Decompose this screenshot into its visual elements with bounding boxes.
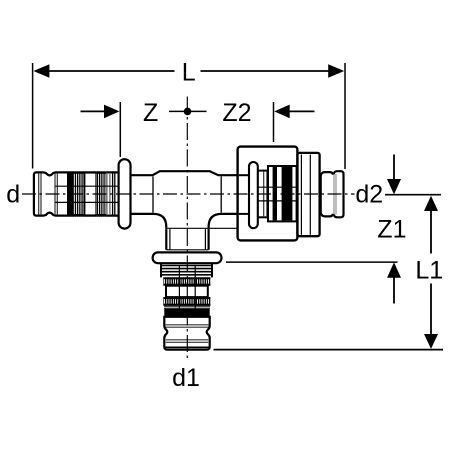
main tube bottom outline with fillets into branch [131, 214, 167, 250]
svg-text:d: d [6, 181, 20, 209]
left port: outer sleeve outline [34, 172, 119, 215]
L extension line left [32, 63, 34, 169]
left port ring lines [107, 173, 115, 215]
svg-text:L1: L1 [415, 257, 443, 285]
left port serration band B [96, 172, 106, 217]
bottom port bore lines [178, 265, 180, 309]
stepped section inside box [268, 166, 297, 221]
L dimension line [48, 70, 175, 72]
left port flange [119, 159, 131, 228]
flange extension line [226, 261, 398, 263]
main tube top outline with hump [131, 171, 238, 175]
horizontal centerline [22, 193, 355, 195]
center dot [184, 108, 192, 116]
pipe end [321, 171, 344, 217]
bottom port neck sides [160, 263, 162, 277]
left port white band [84, 173, 96, 216]
branch inner wall lines [169, 229, 171, 249]
svg-text:Z1: Z1 [377, 215, 406, 243]
svg-text:Z2: Z2 [222, 99, 251, 127]
center mark line [169, 110, 207, 112]
bottom port ring lines [161, 266, 212, 275]
L arrow left [33, 64, 49, 78]
bottom port white band [166, 286, 208, 297]
branch end line above flange [166, 249, 208, 251]
bottom port end sleeve [164, 317, 209, 350]
Z dimension tail [81, 110, 106, 112]
tube lines into box [239, 174, 249, 176]
svg-text:d2: d2 [355, 181, 383, 209]
Z1 down arrow [387, 179, 401, 194]
capsule collar inside box [249, 162, 258, 228]
bottom sleeve detail lines [165, 325, 208, 348]
svg-text:Z: Z [143, 99, 158, 127]
Z2 arrow [274, 105, 289, 119]
L arrow right [328, 64, 344, 78]
bottom extension line [214, 349, 444, 351]
left port serration band A [74, 172, 85, 217]
Z1 dimension lines [393, 155, 395, 181]
svg-text:L: L [182, 59, 196, 87]
bottom port black band [164, 309, 209, 317]
small box [298, 153, 320, 236]
tube joint lines [152, 176, 154, 212]
left port black band [67, 172, 74, 217]
svg-text:d1: d1 [172, 364, 200, 392]
Z1 up arrow [387, 262, 401, 277]
L1 up arrow [424, 196, 438, 211]
neck right of capsule [258, 170, 268, 172]
bottom port serration band B [163, 297, 210, 306]
bottom port serration band A [163, 277, 210, 285]
vertical centerline [186, 97, 188, 360]
left port sleeve detail lines [39, 174, 58, 215]
L extension line right [344, 63, 346, 169]
L1 down arrow [424, 334, 438, 349]
Z tick [119, 102, 121, 157]
Z2 tail [288, 110, 315, 112]
thin line across branch root [167, 227, 237, 229]
Z arrow [104, 105, 119, 119]
bottom port gray pair [164, 305, 210, 307]
L1 dimension lines [430, 211, 432, 254]
right port: big adapter box [238, 147, 298, 241]
d2 extension line [385, 194, 441, 196]
bottom port flange [153, 252, 222, 263]
left port bore lines [56, 185, 119, 187]
Z2 tick [273, 102, 275, 142]
